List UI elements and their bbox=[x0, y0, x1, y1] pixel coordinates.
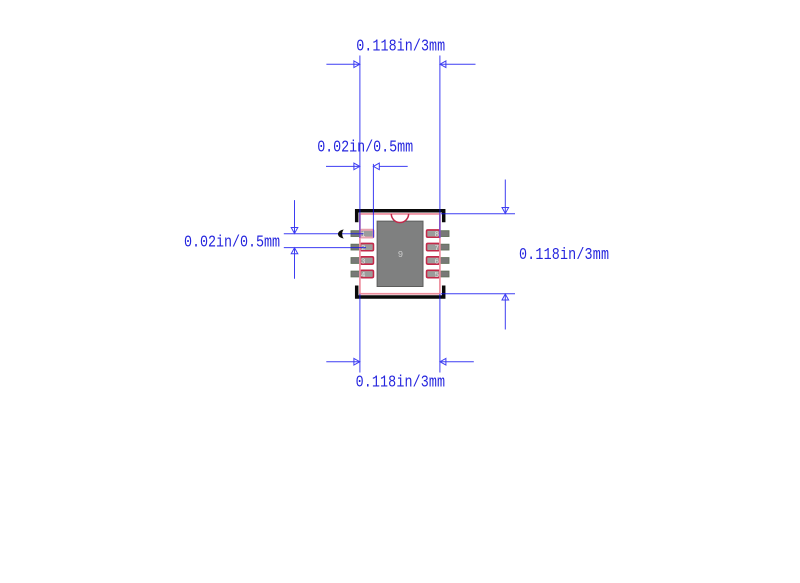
node right arrowhead up-pointing bbox=[502, 294, 509, 300]
svg-text:0.118in/3mm: 0.118in/3mm bbox=[519, 247, 609, 264]
svg-text:7: 7 bbox=[435, 245, 440, 253]
node pin1 orientation arc bbox=[391, 214, 408, 223]
pin 8 lead bbox=[440, 231, 449, 237]
node mid arrowhead left-pointing bbox=[373, 163, 379, 170]
svg-text:2: 2 bbox=[361, 245, 366, 253]
svg-text:8: 8 bbox=[435, 232, 440, 240]
wire left dim vertical upper bbox=[294, 200, 296, 233]
svg-text:3: 3 bbox=[361, 258, 366, 266]
pin 6 lead bbox=[440, 258, 449, 264]
wire mid dimension leader left bbox=[326, 165, 359, 167]
wire mid dimension leader right bbox=[379, 165, 407, 167]
wire left dim vertical lower bbox=[294, 248, 296, 279]
node bottom arrowhead left-pointing bbox=[440, 358, 446, 365]
wire extension line left x=360 bbox=[359, 56, 361, 238]
wire top dimension leader right bbox=[440, 63, 475, 65]
node right arrowhead down-pointing bbox=[502, 208, 509, 214]
node bottom arrowhead right-pointing bbox=[354, 358, 360, 365]
wire left dim extension pin2 bbox=[284, 247, 366, 249]
pad 4 bbox=[360, 270, 373, 277]
svg-text:4: 4 bbox=[361, 272, 366, 280]
pad 1 highlighted bbox=[360, 230, 373, 238]
wire right dim vertical lower bbox=[504, 294, 506, 329]
pin 3 lead bbox=[351, 258, 360, 264]
pin 4 lead bbox=[351, 271, 360, 277]
wire extension line pad inner edge x=373.4 bbox=[372, 164, 374, 238]
U1 silkscreen bottom bbox=[357, 286, 444, 297]
U1 package outline courtyard bbox=[360, 214, 440, 294]
wire right dim vertical upper bbox=[504, 180, 506, 214]
wire bottom dimension leader left bbox=[326, 361, 359, 363]
wire extension line right x=440 bbox=[439, 56, 441, 239]
svg-text:9: 9 bbox=[398, 250, 403, 260]
pad 3 bbox=[360, 257, 373, 264]
U1 silkscreen top bbox=[357, 211, 444, 223]
wire right dim extension bottom bbox=[441, 293, 515, 295]
pad 2 bbox=[360, 244, 373, 251]
wire right dim extension top bbox=[441, 213, 515, 215]
svg-text:0.02in/0.5mm: 0.02in/0.5mm bbox=[317, 140, 413, 157]
node mid arrowhead right-pointing bbox=[354, 163, 360, 170]
pad 7 bbox=[427, 244, 440, 251]
pin 7 lead bbox=[440, 244, 449, 250]
wire bottom dimension leader right bbox=[440, 361, 473, 363]
wire left dim extension pin1 bbox=[284, 233, 364, 235]
svg-text:5: 5 bbox=[435, 272, 440, 280]
pin 5 lead bbox=[440, 271, 449, 277]
pad 5 bbox=[427, 270, 440, 277]
node top arrowhead right-pointing bbox=[354, 61, 360, 68]
svg-text:0.118in/3mm: 0.118in/3mm bbox=[356, 374, 446, 391]
svg-text:0.02in/0.5mm: 0.02in/0.5mm bbox=[184, 234, 280, 251]
pad 8 bbox=[427, 230, 440, 237]
node top arrowhead left-pointing bbox=[440, 61, 446, 68]
node left arrowhead up-pointing bbox=[291, 248, 298, 254]
node left arrowhead down-pointing bbox=[291, 228, 298, 234]
pad 6 bbox=[427, 257, 440, 264]
node pin1 indicator dot bbox=[338, 230, 344, 239]
pin 2 lead bbox=[351, 244, 360, 250]
svg-text:1: 1 bbox=[361, 232, 366, 240]
pin 1 lead bbox=[351, 231, 360, 237]
svg-text:0.118in/3mm: 0.118in/3mm bbox=[356, 39, 445, 56]
svg-text:6: 6 bbox=[435, 258, 440, 266]
wire top dimension leader left bbox=[326, 63, 359, 65]
pad 9 thermal bbox=[377, 221, 423, 286]
